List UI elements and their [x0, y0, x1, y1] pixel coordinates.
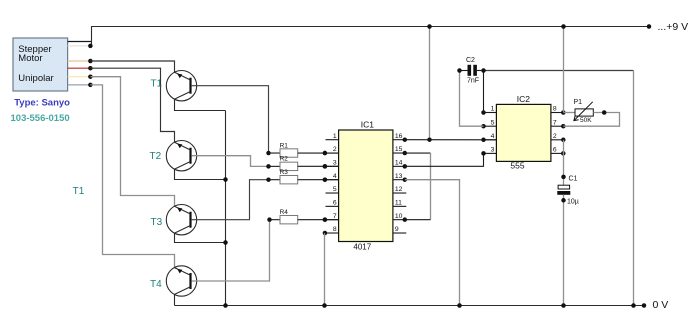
op-amp IC2 body (555 timer): [496, 94, 551, 170]
node 0V terminal dot: [642, 303, 647, 308]
svg-text:10: 10: [395, 213, 403, 220]
junction IC1 pin 7: [323, 217, 328, 222]
wire motor phase lead 2 (red): [68, 67, 91, 69]
svg-text:10µ: 10µ: [567, 199, 579, 206]
svg-text:Type: Sanyo: Type: Sanyo: [14, 97, 70, 108]
svg-text:2: 2: [553, 133, 557, 140]
potentiometer P1: [563, 99, 619, 126]
junction phase 3: [88, 74, 93, 79]
wire ground run to 0V vertical: [633, 71, 635, 306]
wire motor phase lead 1 (orange): [68, 60, 91, 62]
svg-text:4: 4: [491, 133, 495, 140]
wire phase 4 to T4 collector: [90, 85, 174, 268]
svg-text:5: 5: [333, 186, 337, 193]
wire IC2 pin5 to C2: [460, 71, 484, 127]
junction IC2 left pin 4: [481, 138, 486, 143]
wire motor phase lead 3 (yellow): [68, 76, 91, 78]
transistor T2: [150, 141, 197, 171]
pin 10 IC1: [393, 213, 406, 220]
resistor R2: [269, 156, 339, 171]
wire phase 3 to T3 collector: [90, 77, 174, 207]
junction C2 left: [457, 68, 462, 73]
svg-text:P1: P1: [574, 99, 583, 106]
wire phase 2 to T2 collector: [90, 68, 174, 142]
resistor R1: [269, 142, 339, 157]
svg-text:13: 13: [395, 173, 403, 180]
svg-text:7: 7: [553, 119, 557, 126]
net label ...+9 V: [658, 21, 689, 33]
junction R3 left: [266, 177, 271, 182]
svg-text:T1: T1: [73, 186, 85, 197]
transistor T1: [151, 71, 197, 101]
svg-text:1: 1: [491, 106, 495, 113]
wire +9V to IC1 pin 16 vertical: [429, 27, 431, 140]
+9V supply rail: [91, 26, 649, 28]
capacitor C1 (10u electrolytic): [557, 176, 579, 306]
svg-text:9: 9: [395, 226, 399, 233]
wire T2 base to R2: [192, 156, 269, 167]
junction T3 emitter to bus: [223, 240, 228, 245]
wire motor common lead (black) to +9V: [68, 41, 92, 43]
svg-text:16: 16: [395, 133, 403, 140]
pin 4 IC2: [484, 133, 497, 140]
junction R4 left: [267, 217, 272, 222]
junction IC2 right pin 7: [561, 124, 566, 129]
wire IC1 pin16 to IC2 pin4: [405, 139, 497, 141]
motor type label: [14, 97, 70, 108]
junction IC2 right pin 6: [561, 151, 566, 156]
junction emitter bus to 0V: [223, 303, 228, 308]
wire T3 base to R3: [192, 180, 269, 220]
pin 7 IC1: [326, 213, 339, 220]
stray label T1: [73, 186, 85, 197]
svg-text:R4: R4: [280, 209, 289, 216]
wire IC1 pin8 to 0V: [324, 233, 326, 305]
svg-text:3: 3: [491, 147, 495, 154]
pin 13 IC1: [393, 173, 406, 180]
svg-text:R1: R1: [280, 142, 289, 149]
svg-text:12: 12: [395, 186, 403, 193]
pin 2 IC1: [326, 146, 339, 153]
junction ground run at 0V: [631, 303, 636, 308]
pin 1 IC2: [484, 106, 497, 113]
svg-text:7nF: 7nF: [467, 77, 479, 84]
junction phase 2: [88, 66, 93, 71]
svg-text:IC1: IC1: [361, 119, 375, 129]
junction IC1 pin 2: [323, 151, 328, 156]
junction IC1 pin 4: [323, 177, 328, 182]
junction P1 right: [602, 110, 607, 115]
svg-text:T2: T2: [150, 151, 162, 162]
junction C1 bottom lead: [561, 198, 566, 203]
wire T1 base to R1: [192, 86, 269, 153]
junction R1 left: [266, 151, 271, 156]
svg-text:C1: C1: [569, 176, 578, 183]
capacitor C2: [460, 57, 484, 85]
svg-text:11: 11: [395, 200, 402, 207]
svg-text:6: 6: [333, 200, 337, 207]
wire +9V to IC2 pin8: [563, 27, 565, 113]
wire pin15 to pin10 vertical: [430, 153, 432, 220]
pin 3 IC1: [326, 160, 339, 167]
svg-text:T3: T3: [151, 217, 163, 228]
pin 14 IC1: [393, 160, 406, 167]
wire IC2 pins 2-6 to C1: [563, 140, 565, 185]
svg-text:103-556-0150: 103-556-0150: [11, 113, 70, 124]
wire T4 emitter: [174, 294, 176, 305]
svg-text:6: 6: [553, 147, 557, 154]
junction C1 top: [561, 175, 566, 180]
wire emitter bus: [225, 111, 227, 306]
svg-text:1: 1: [333, 133, 337, 140]
junction IC2 left pin 3: [481, 151, 486, 156]
junction IC2 left pin 1: [481, 110, 486, 115]
svg-text:7: 7: [333, 213, 337, 220]
pin 16 IC1: [393, 133, 406, 140]
wire IC1 pin13 to 0V: [405, 180, 460, 306]
motor part number label: [11, 113, 70, 124]
pin 11 IC1: [393, 200, 406, 207]
pin 7 IC2: [551, 119, 563, 126]
junction R2 left: [266, 164, 271, 169]
junction IC2 right pin 8: [561, 110, 566, 115]
junction +9V at x=563.2: [561, 24, 566, 29]
junction pin13 ground: [457, 303, 462, 308]
svg-text:T4: T4: [150, 279, 162, 290]
junction IC1 pin 13: [403, 177, 408, 182]
svg-text:R2: R2: [280, 156, 289, 163]
svg-text:T1: T1: [151, 79, 163, 90]
wire motor common lead (white): [68, 45, 91, 47]
junction C1 ground: [561, 303, 566, 308]
svg-text:4017: 4017: [353, 242, 371, 251]
wire +9V drop to motor commons: [91, 27, 93, 46]
junction pin8 ground: [322, 303, 327, 308]
wire T3 emitter: [175, 233, 226, 242]
pin 12 IC1: [393, 186, 406, 193]
pin 6 IC1: [326, 200, 339, 207]
resistor R4: [269, 209, 339, 224]
svg-text:5: 5: [491, 119, 495, 126]
junction IC1 pin 8: [323, 231, 328, 236]
svg-text:3: 3: [333, 160, 337, 167]
junction motor common: [88, 44, 93, 49]
wire motor phase lead 4 (grey): [68, 84, 91, 86]
junction T2 emitter to bus: [223, 177, 228, 182]
wire T1 emitter: [175, 99, 226, 110]
pin 5 IC2: [484, 119, 497, 126]
pin 15 IC1: [393, 146, 406, 153]
svg-text:Motor: Motor: [18, 53, 42, 64]
stepper motor block M1: [13, 38, 68, 91]
junction IC1 pin 15: [403, 151, 408, 156]
junction IC1 pin 3: [323, 164, 328, 169]
pin 6 IC2: [551, 147, 563, 154]
svg-text:50K: 50K: [580, 117, 592, 124]
junction IC2 right pin 2: [561, 138, 566, 143]
pin 2 IC2: [551, 133, 563, 140]
svg-text:Unipolar: Unipolar: [18, 73, 53, 84]
svg-text:555: 555: [510, 160, 524, 170]
net label 0 V: [653, 299, 669, 311]
transistor T4: [150, 266, 197, 296]
pin 1 IC1: [326, 133, 339, 140]
wire IC1 pin10 horizontal: [405, 219, 431, 221]
junction IC2 left pin 5: [481, 124, 486, 129]
svg-text:8: 8: [553, 106, 557, 113]
svg-text:15: 15: [395, 146, 403, 153]
wire IC2 pin1 to ground run: [483, 71, 485, 113]
junction pin16 row: [427, 137, 432, 142]
op-amp IC1 body (4017 decade counter): [339, 119, 393, 251]
svg-text:2: 2: [333, 146, 337, 153]
pin 9 IC1: [393, 226, 406, 233]
pin 4 IC1: [326, 173, 339, 180]
junction +9V at x=429.6: [427, 24, 432, 29]
wire IC1 pin15 horizontal: [405, 152, 431, 154]
junction IC1 pin 10: [403, 217, 408, 222]
resistor R3: [269, 169, 339, 184]
wire phase 1 to T1 collector: [90, 61, 174, 72]
wire T2 emitter: [175, 169, 226, 179]
transistor T3: [151, 205, 197, 235]
svg-text:8: 8: [333, 226, 337, 233]
wire T4 base to R4: [192, 220, 270, 281]
node +9V terminal dot: [647, 24, 652, 29]
0V ground rail: [175, 305, 645, 307]
junction phase 1: [88, 59, 93, 64]
pin 8 IC1: [326, 226, 339, 233]
wire C2 ground run horizontal: [484, 70, 634, 72]
junction C2 right: [481, 68, 486, 73]
svg-text:4: 4: [333, 173, 337, 180]
svg-text:C2: C2: [466, 57, 475, 64]
svg-text:...+9 V: ...+9 V: [658, 21, 689, 33]
junction IC1 pin 16: [403, 137, 408, 142]
svg-text:IC2: IC2: [517, 94, 531, 104]
pin 3 IC2: [484, 147, 497, 154]
junction IC1 pin 14: [403, 164, 408, 169]
svg-text:14: 14: [395, 160, 403, 167]
pin 5 IC1: [326, 186, 339, 193]
svg-text:R3: R3: [280, 169, 289, 176]
wire IC1 pin14 clock from IC2 pin3: [405, 153, 484, 166]
junction phase 4: [88, 83, 93, 88]
svg-text:0 V: 0 V: [653, 299, 669, 311]
pin 8 IC2: [551, 106, 563, 113]
